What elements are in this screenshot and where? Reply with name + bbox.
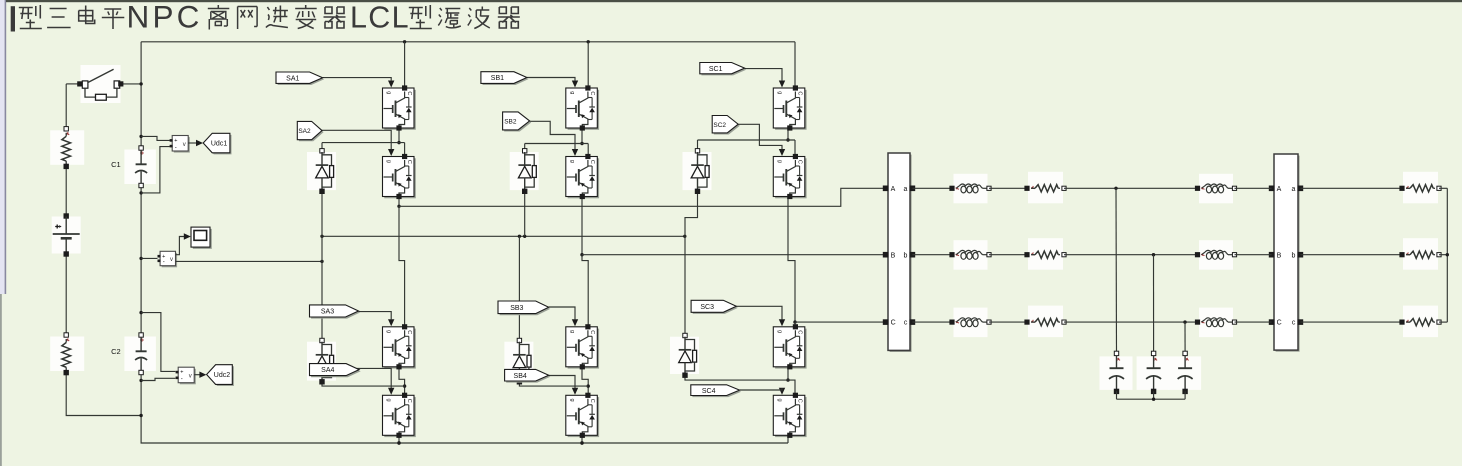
- svg-text:Udc1: Udc1: [211, 141, 227, 148]
- svg-text:C: C: [589, 91, 595, 95]
- svg-text:SC2: SC2: [713, 122, 726, 129]
- svg-text:C: C: [1277, 320, 1282, 327]
- svg-text:v: v: [183, 142, 186, 148]
- svg-text:C: C: [797, 91, 803, 95]
- svg-text:A: A: [891, 186, 896, 193]
- svg-text:SC3: SC3: [700, 304, 714, 311]
- svg-text:g: g: [776, 91, 782, 94]
- svg-text:SA1: SA1: [286, 75, 299, 82]
- svg-text:SB2: SB2: [504, 119, 517, 126]
- svg-text:B: B: [891, 252, 896, 259]
- svg-text:C: C: [589, 399, 595, 403]
- svg-text:C: C: [406, 330, 412, 334]
- svg-text:-: -: [163, 260, 165, 266]
- svg-text:g: g: [776, 330, 782, 333]
- svg-text:C2: C2: [111, 347, 121, 356]
- svg-text:g: g: [776, 160, 782, 163]
- svg-text:a: a: [903, 186, 907, 193]
- svg-text:+: +: [180, 370, 183, 376]
- svg-text:Udc2: Udc2: [214, 372, 230, 379]
- svg-text:-: -: [175, 145, 177, 151]
- svg-text:C: C: [406, 160, 412, 164]
- svg-text:C: C: [797, 399, 803, 403]
- svg-text:SA2: SA2: [298, 128, 311, 135]
- svg-text:SA4: SA4: [321, 367, 334, 374]
- svg-text:C: C: [797, 330, 803, 334]
- svg-text:SC4: SC4: [702, 388, 716, 395]
- svg-text:C: C: [406, 399, 412, 403]
- svg-text:LCL: LCL: [350, 0, 410, 34]
- svg-text:NPC: NPC: [127, 0, 203, 34]
- svg-text:C: C: [891, 320, 896, 327]
- svg-text:c: c: [904, 320, 908, 327]
- svg-text:C: C: [589, 330, 595, 334]
- svg-text:v: v: [170, 257, 173, 263]
- svg-text:SB4: SB4: [514, 373, 527, 380]
- svg-text:v: v: [189, 374, 192, 380]
- svg-text:c: c: [1292, 320, 1296, 327]
- svg-text:+: +: [174, 138, 177, 144]
- svg-text:C1: C1: [111, 160, 121, 169]
- svg-text:C: C: [589, 160, 595, 164]
- svg-text:SB3: SB3: [510, 305, 523, 312]
- svg-text:-: -: [181, 377, 183, 383]
- svg-text:A: A: [1277, 186, 1282, 193]
- svg-text:b: b: [903, 252, 907, 259]
- svg-text:g: g: [386, 91, 392, 94]
- svg-text:g: g: [569, 330, 575, 333]
- svg-text:SA3: SA3: [321, 309, 334, 316]
- svg-text:g: g: [776, 399, 782, 402]
- svg-text:g: g: [386, 330, 392, 333]
- svg-text:g: g: [386, 399, 392, 402]
- svg-text:C: C: [406, 91, 412, 95]
- svg-text:g: g: [569, 91, 575, 94]
- svg-text:C: C: [797, 160, 803, 164]
- svg-text:SB1: SB1: [491, 75, 504, 82]
- svg-text:g: g: [386, 160, 392, 163]
- svg-text:g: g: [569, 399, 575, 402]
- svg-text:SC1: SC1: [709, 66, 723, 73]
- svg-text:g: g: [569, 160, 575, 163]
- svg-text:B: B: [1277, 252, 1282, 259]
- svg-text:a: a: [1291, 186, 1295, 193]
- svg-text:b: b: [1291, 252, 1295, 259]
